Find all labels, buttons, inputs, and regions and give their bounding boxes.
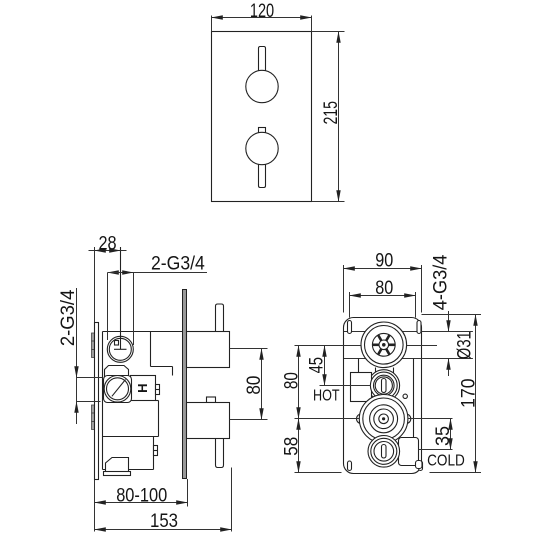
svg-text:90: 90 bbox=[375, 251, 393, 272]
svg-text:35: 35 bbox=[433, 426, 454, 446]
svg-text:COLD: COLD bbox=[427, 452, 465, 469]
svg-text:2-G3/4: 2-G3/4 bbox=[58, 289, 79, 346]
svg-text:215: 215 bbox=[321, 101, 342, 125]
svg-text:H: H bbox=[135, 384, 150, 393]
svg-text:28: 28 bbox=[98, 234, 116, 255]
svg-text:80: 80 bbox=[244, 376, 265, 395]
svg-text:153: 153 bbox=[150, 511, 178, 532]
svg-text:80-100: 80-100 bbox=[116, 485, 167, 506]
svg-text:HOT: HOT bbox=[313, 388, 340, 405]
svg-text:2-G3/4: 2-G3/4 bbox=[151, 254, 205, 275]
svg-text:170: 170 bbox=[458, 378, 479, 408]
svg-text:45: 45 bbox=[306, 357, 327, 373]
svg-text:120: 120 bbox=[250, 1, 274, 22]
svg-text:Ø31: Ø31 bbox=[454, 331, 475, 359]
svg-text:80: 80 bbox=[375, 278, 393, 299]
svg-text:58: 58 bbox=[281, 437, 302, 456]
svg-text:80: 80 bbox=[281, 372, 302, 389]
svg-text:4-G3/4: 4-G3/4 bbox=[431, 254, 452, 310]
